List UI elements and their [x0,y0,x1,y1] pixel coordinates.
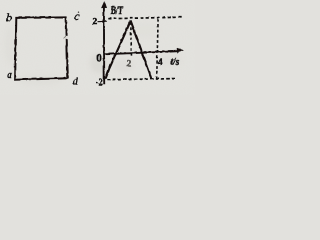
svg-text:B/T: B/T [110,2,123,16]
small tick near gap [63,36,65,38]
dashed vertical t=4 [156,19,157,79]
svg-text:2: 2 [92,17,97,27]
svg-text:-2: -2 [95,77,102,88]
gap on right edge (scan dropout) [65,35,68,39]
y-axis arrowhead [101,1,107,8]
paper background [0,0,195,95]
svg-text:a: a [7,70,12,81]
svg-text:b: b [6,10,12,24]
tick at +2 on y-axis [97,20,106,22]
svg-text:4: 4 [158,56,163,66]
x-axis [103,51,178,54]
dashed line B=-2 [107,78,175,79]
dashed vertical t=2 [129,22,132,58]
dashed line B=+2 [108,17,182,19]
svg-text:t/s: t/s [170,56,179,67]
y-axis [102,5,104,85]
stray mark above c [78,12,79,13]
svg-text:2: 2 [126,58,131,68]
x-axis arrowhead [176,48,183,54]
scan haze patches [4,21,182,86]
triangle wave rising edge [105,20,130,78]
square coil abcd [15,17,68,79]
triangle wave falling edge [130,20,151,78]
svg-text:0: 0 [96,52,101,64]
